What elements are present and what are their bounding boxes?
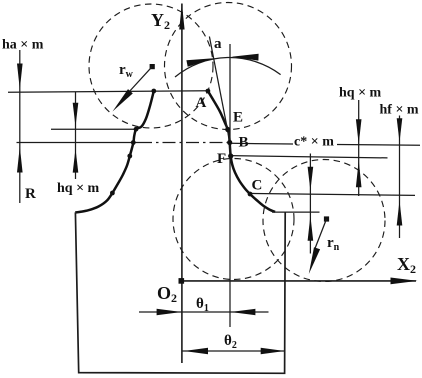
node rolling circle top-left (rw circle) bbox=[89, 4, 213, 128]
node Y2 axis bbox=[179, 4, 184, 364]
node hq x m left dimension bbox=[73, 92, 79, 179]
wire hq upper reference line bbox=[51, 128, 136, 130]
svg-text:hq × m: hq × m bbox=[57, 181, 100, 196]
node theta2 dimension bbox=[182, 348, 285, 354]
svg-text:θ2: θ2 bbox=[224, 333, 237, 351]
wire tip line (addendum) bbox=[8, 91, 209, 93]
node line a (pressure line) bbox=[209, 37, 230, 143]
node O2 origin marker bbox=[179, 278, 185, 284]
node rn radius arrow bbox=[309, 216, 329, 274]
wire C reference line bbox=[250, 193, 415, 195]
svg-text:C: C bbox=[252, 178, 263, 194]
node rolling circle top-right bbox=[165, 3, 292, 130]
wire pitch centerline dash-dot bbox=[139, 142, 230, 144]
svg-text:hq × m: hq × m bbox=[339, 86, 382, 101]
svg-text:B: B bbox=[239, 135, 249, 151]
node rolling circle bottom-left bbox=[173, 159, 294, 280]
node profile points left flank bbox=[110, 89, 156, 196]
svg-text:R: R bbox=[25, 186, 36, 202]
node hf x m dimension bbox=[397, 116, 403, 239]
svg-text:X2: X2 bbox=[397, 254, 416, 276]
wire B line right (c* x m line) bbox=[230, 142, 293, 145]
wire left tooth flank bbox=[75, 91, 154, 212]
svg-text:a: a bbox=[214, 36, 222, 52]
svg-text:A: A bbox=[196, 95, 207, 111]
wire vertical line through B bbox=[229, 44, 231, 327]
svg-text:E: E bbox=[233, 110, 243, 126]
svg-text:c* × m: c* × m bbox=[294, 135, 334, 150]
node ha x m dimension bbox=[17, 50, 23, 203]
svg-text:rn: rn bbox=[327, 235, 340, 253]
node profile points right flank bbox=[206, 89, 253, 197]
svg-text:O2: O2 bbox=[157, 283, 177, 305]
node X2 axis bbox=[182, 278, 418, 285]
svg-text:ha × m: ha × m bbox=[2, 38, 44, 53]
svg-text:F: F bbox=[217, 151, 226, 167]
node pressure angle arc bbox=[175, 54, 281, 77]
wire F reference line bbox=[231, 156, 388, 158]
wire root land + extension bbox=[272, 211, 320, 213]
node rw radius arrow bbox=[113, 64, 155, 112]
node rolling circle bottom-right (rn circle) bbox=[263, 160, 385, 282]
node theta1 dimension bbox=[139, 309, 269, 315]
svg-text:hf × m: hf × m bbox=[380, 103, 419, 118]
svg-text:Y2: Y2 bbox=[151, 10, 170, 32]
node root clearance dimension bbox=[308, 154, 314, 254]
wire tooth blank outline bbox=[75, 212, 285, 373]
node hq x m right dimension bbox=[356, 100, 362, 196]
svg-text:rw: rw bbox=[119, 62, 134, 80]
wire pitch reference line left bbox=[17, 142, 140, 144]
svg-text:θ1: θ1 bbox=[196, 296, 209, 314]
wire right tooth flank bbox=[208, 91, 275, 212]
